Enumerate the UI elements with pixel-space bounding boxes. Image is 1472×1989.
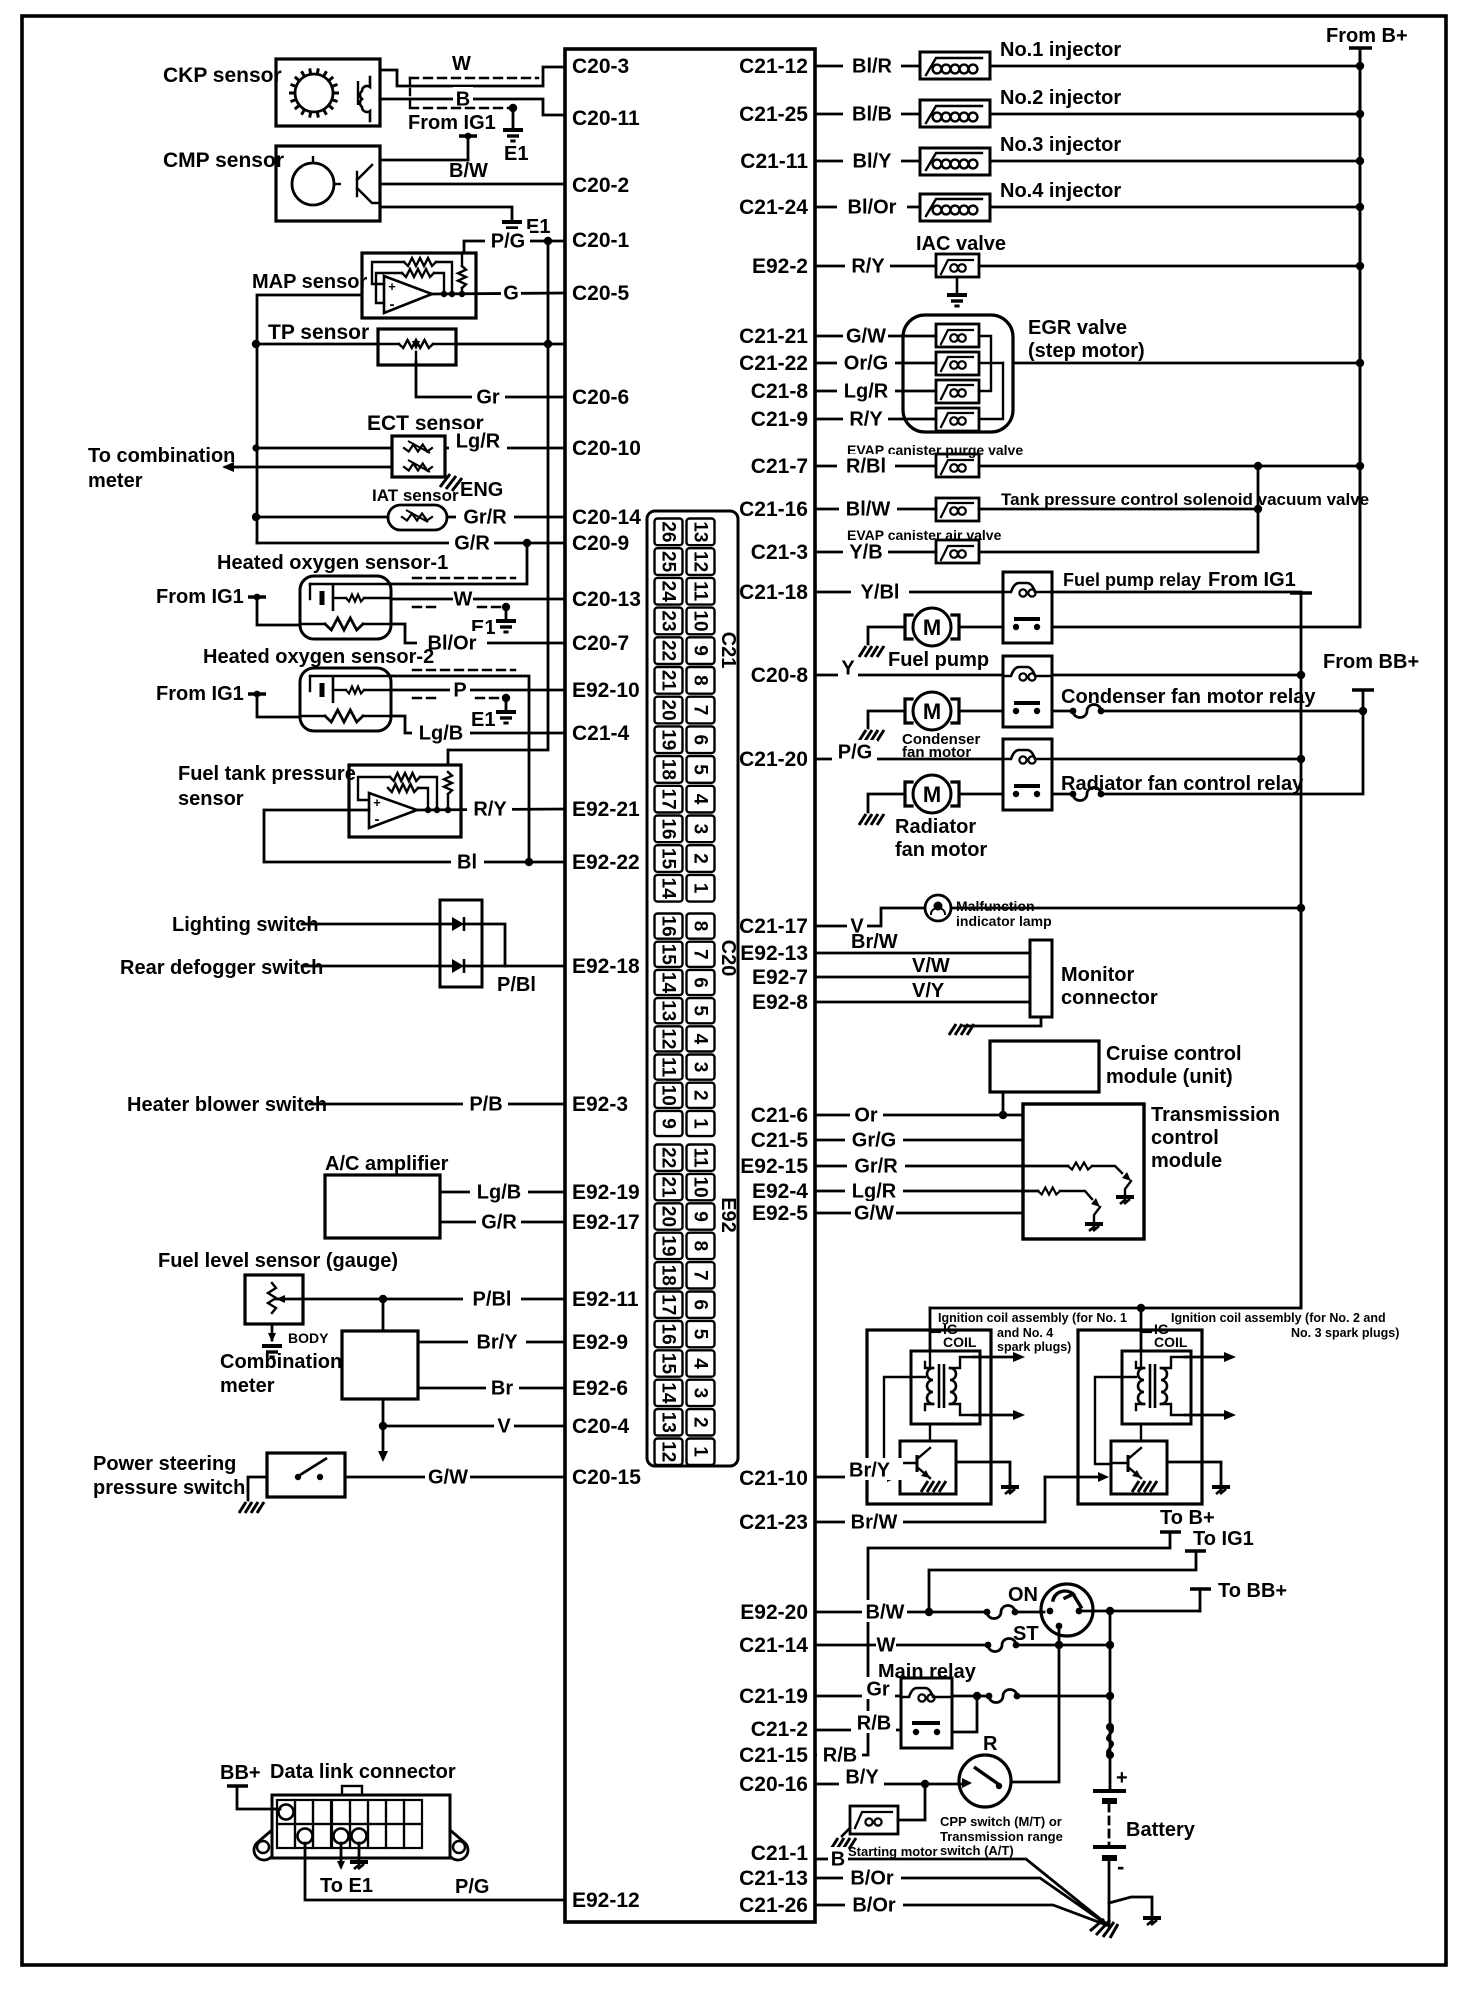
FTP op-amp: [369, 793, 417, 828]
arrowhead to combination meter: [222, 462, 234, 472]
svg-text:C21-20: C21-20: [739, 748, 808, 771]
junction TP on sensor bus: [252, 340, 260, 348]
TCM internal resistor 1: [1068, 1163, 1092, 1170]
wire base input: [1045, 1476, 1104, 1479]
svg-text:E92: E92: [717, 1197, 739, 1233]
svg-text:G/W: G/W: [428, 1466, 468, 1488]
svg-text:R/Bl: R/Bl: [846, 455, 886, 477]
junction ignition coil assembly 2 feed: [1137, 1304, 1145, 1312]
CPP switch circle: [959, 1755, 1011, 1807]
shield dashed below W wire left: [413, 606, 440, 608]
svg-text:pressure switch: pressure switch: [93, 1477, 245, 1499]
No.4 injector (coil): [920, 194, 990, 221]
wire Lg/R from C21-8 to EGR coil: [815, 390, 936, 393]
svg-text:connector: connector: [1061, 987, 1158, 1009]
ground E1 (HO2S-2 shield): [496, 712, 516, 723]
fuel pump relay: [1003, 572, 1052, 643]
wire radiator fan to BB+ bus end: [1101, 793, 1363, 796]
wire G from MAP op-amp to C20-5: [432, 293, 565, 294]
svg-text:2: 2: [690, 1417, 711, 1428]
svg-text:Fuel tank pressure: Fuel tank pressure: [178, 763, 356, 785]
shield ground junction: [509, 104, 517, 112]
svg-text:Br/Y: Br/Y: [849, 1459, 891, 1481]
wire Bl/R from C21-12 to No.1 injector: [815, 65, 920, 68]
svg-text:sensor: sensor: [178, 788, 244, 810]
junction V wire: [379, 1422, 387, 1430]
diode 2: [452, 959, 464, 973]
svg-text:20: 20: [658, 1206, 679, 1227]
svg-text:9: 9: [690, 1211, 711, 1222]
svg-text:18: 18: [658, 759, 679, 780]
svg-text:Bl/Or: Bl/Or: [428, 632, 477, 654]
ground (starting motor): [831, 1838, 856, 1849]
svg-text:4: 4: [690, 794, 711, 805]
TCM internal solenoid arrow 1: [1122, 1172, 1131, 1181]
svg-text:Gr: Gr: [476, 386, 500, 408]
fuse (B/W ignition feed): [984, 1609, 991, 1616]
svg-text:C20-14: C20-14: [572, 506, 641, 529]
svg-text:+: +: [373, 795, 381, 810]
junction IAT on sensor bus: [252, 513, 260, 521]
svg-text:12: 12: [658, 1441, 679, 1462]
IAT thermistor: [402, 514, 432, 521]
svg-text:19: 19: [658, 1235, 679, 1256]
igniter (power transistor): [900, 1441, 956, 1494]
wire R/Y from C21-9 to EGR coil: [815, 418, 936, 421]
FTP feedback resistor 2: [388, 784, 418, 792]
junction W to ST line: [1055, 1641, 1063, 1649]
svg-text:E92-11: E92-11: [572, 1288, 639, 1311]
wire W from HO2S-1 to C20-13: [391, 598, 565, 601]
svg-text:G/R: G/R: [481, 1211, 517, 1233]
svg-text:E92-19: E92-19: [572, 1181, 640, 1204]
svg-text:Cruise control: Cruise control: [1106, 1043, 1242, 1065]
EVAP canister air valve (coil): [936, 540, 979, 563]
svg-text:W: W: [452, 53, 471, 75]
switch contacts: [295, 1474, 301, 1480]
wire to starting motor solenoid: [898, 1784, 925, 1820]
svg-text:Heater blower switch: Heater blower switch: [127, 1094, 327, 1116]
svg-text:TP sensor: TP sensor: [268, 321, 369, 344]
wire Bl/B from C21-25 to No.2 injector: [815, 113, 920, 116]
junction No.1 injector on B+ bus: [1356, 62, 1364, 70]
wire P/B to E92-3: [310, 1103, 565, 1106]
wire IAC valve to ground: [956, 278, 959, 293]
wire B/Or from C21-26 to ground point: [815, 1905, 1109, 1926]
wire fuel pump to ground: [868, 627, 904, 644]
svg-text:15: 15: [658, 848, 679, 870]
svg-text:1: 1: [690, 1118, 711, 1129]
svg-text:C21-17: C21-17: [739, 915, 808, 938]
svg-text:6: 6: [690, 977, 711, 988]
connector E92 left column pins 22-12: [655, 1145, 683, 1465]
MAP feedback resistor 2: [402, 269, 434, 277]
wire P/G from C21-20 to radiator fan relay: [815, 758, 1003, 761]
svg-text:P/B: P/B: [469, 1093, 502, 1115]
CMP pickup: [357, 165, 380, 203]
svg-text:9: 9: [658, 1118, 679, 1129]
svg-text:2: 2: [690, 1090, 711, 1101]
starting motor solenoid: [850, 1806, 898, 1834]
junction HO2S-2 to Bl row: [525, 858, 533, 866]
wire Gr/R from IAT to C20-14: [447, 516, 565, 519]
svg-text:12: 12: [690, 551, 711, 572]
wire Lg/B to E92-19: [440, 1191, 565, 1194]
wire R/Y from E92-2 to IAC valve: [815, 265, 936, 268]
svg-text:V: V: [497, 1415, 511, 1437]
svg-text:C21-24: C21-24: [739, 196, 808, 219]
svg-text:Radiator fan control relay: Radiator fan control relay: [1061, 773, 1304, 795]
wire solenoid to ground: [842, 1828, 850, 1836]
ground E1 (HO2S-1 shield): [496, 621, 516, 632]
svg-text:8: 8: [690, 675, 711, 686]
svg-text:E92-22: E92-22: [572, 851, 640, 874]
svg-text:9: 9: [690, 645, 711, 656]
svg-text:No. 3 spark plugs): No. 3 spark plugs): [1291, 1326, 1399, 1340]
svg-text:CMP sensor: CMP sensor: [163, 149, 284, 172]
wire Lg/R from ECT to C20-10: [445, 447, 565, 450]
svg-text:E92-10: E92-10: [572, 679, 640, 702]
wire from lighting switch: [302, 923, 452, 926]
svg-text:C20-8: C20-8: [751, 664, 809, 687]
svg-text:E92-5: E92-5: [752, 1202, 808, 1225]
svg-text:G/W: G/W: [846, 325, 886, 347]
svg-text:Radiator: Radiator: [895, 816, 976, 838]
svg-text:Battery: Battery: [1126, 1819, 1196, 1841]
svg-text:M: M: [923, 615, 941, 640]
svg-text:E92-4: E92-4: [752, 1180, 808, 1203]
wire G/R from sensor bus to C20-9: [257, 542, 565, 545]
fusible link (radiator fan): [1070, 791, 1077, 798]
wire Y/B from C21-3 to EVAP air valve: [815, 551, 936, 554]
svg-text:6: 6: [690, 735, 711, 746]
ignition coil assembly 1 (No.1 and No.4): [867, 1330, 991, 1504]
svg-text:10: 10: [690, 610, 711, 631]
ground (condenser fan motor): [859, 730, 884, 741]
cruise control module box: [990, 1041, 1099, 1092]
wire From IG1 to HO2S-1 heater: [257, 597, 300, 625]
svg-text:E92-15: E92-15: [740, 1155, 808, 1178]
wire No.3 injector to B+ bus: [990, 160, 1360, 163]
wire MIL to IG1 bus: [951, 907, 1301, 910]
HO2S-2 heater resistor: [325, 710, 363, 722]
svg-text:No.4 injector: No.4 injector: [1000, 180, 1121, 202]
svg-text:IAT sensor: IAT sensor: [372, 486, 459, 505]
svg-text:E92-6: E92-6: [572, 1377, 628, 1400]
svg-text:17: 17: [658, 1294, 679, 1315]
svg-text:14: 14: [658, 972, 679, 994]
svg-text:-: -: [375, 811, 380, 828]
svg-text:C21-9: C21-9: [751, 408, 808, 431]
wire Br/Y to E92-9: [418, 1341, 565, 1344]
svg-text:C21-25: C21-25: [739, 103, 808, 126]
switch diode box: [440, 900, 482, 987]
svg-text:B/Or: B/Or: [850, 1867, 894, 1889]
HO2S-1 signal internal: [310, 583, 391, 585]
svg-text:To IG1: To IG1: [1193, 1528, 1254, 1550]
secondary output 2: [1185, 1414, 1230, 1417]
svg-text:3: 3: [690, 1062, 711, 1073]
wire combination meter down arrow: [382, 1426, 385, 1458]
shield dashed left end: [409, 78, 411, 108]
wire switch to ground: [248, 1477, 267, 1500]
CKP sensor box: [276, 59, 380, 126]
IAT sensor body: [388, 505, 447, 530]
svg-text:A/C amplifier: A/C amplifier: [325, 1153, 449, 1175]
svg-text:Br/W: Br/W: [851, 1511, 898, 1533]
ECU (engine control module) box: [565, 49, 815, 1922]
svg-text:Fuel pump: Fuel pump: [888, 649, 989, 671]
svg-text:Lg/B: Lg/B: [477, 1181, 521, 1203]
svg-text:+: +: [1116, 1767, 1128, 1789]
wire fuel pump relay contact to B+ bus: [1052, 626, 1360, 629]
MAP pull-up resistor: [458, 266, 466, 288]
shield dashed line above B wire: [410, 77, 538, 79]
svg-text:1: 1: [690, 1446, 711, 1457]
wire B from C21-1 to ground point: [815, 1859, 1109, 1926]
connector C21 left column pins 26-14: [655, 519, 683, 902]
MAP op-amp: [384, 276, 432, 313]
wire V to C20-4: [383, 1399, 565, 1426]
svg-text:G/R: G/R: [454, 532, 490, 554]
wire TP left to sensor bus: [256, 343, 378, 346]
shield dashed above P wire: [413, 669, 515, 671]
wire G/W from E92-5: [815, 1212, 1023, 1215]
svg-text:C20-1: C20-1: [572, 229, 630, 252]
svg-text:P/G: P/G: [491, 230, 525, 252]
svg-text:B/W: B/W: [449, 160, 488, 182]
wire Bl/Or from HO2S-1 heater to C20-7: [391, 624, 565, 643]
wire ignition switch to To BB+ / battery: [1079, 1610, 1200, 1613]
svg-text:Lg/B: Lg/B: [419, 722, 463, 744]
monitor connector box: [1030, 940, 1052, 1017]
wire diode outputs join: [464, 924, 505, 966]
power steering pressure switch box: [267, 1453, 345, 1497]
FTP pull-up resistor: [444, 772, 452, 794]
svg-text:10: 10: [690, 1177, 711, 1198]
FTP internal wiring: [358, 777, 390, 800]
svg-text:Gr: Gr: [866, 1678, 890, 1700]
svg-text:24: 24: [658, 581, 679, 603]
wire condenser relay coil to IG1 bus: [1052, 674, 1301, 677]
wire Y from C20-8 to condenser fan relay: [815, 674, 1003, 677]
ground (igniter internal): [1132, 1481, 1157, 1492]
connector E92 right column pins 11-1: [687, 1145, 715, 1465]
wire IG1 bus vertical: [1300, 593, 1303, 1308]
wire B/Or from C21-13 to ground point: [815, 1878, 1109, 1926]
svg-text:E92-3: E92-3: [572, 1093, 628, 1116]
svg-text:B/W: B/W: [866, 1601, 905, 1623]
svg-text:IAC valve: IAC valve: [916, 233, 1006, 255]
wire fuel level sensor to body ground: [271, 1324, 274, 1340]
wire HO2S-1 signal up to G/R row: [391, 543, 527, 584]
ground (fuel pump): [859, 646, 884, 657]
HO2S-1 body: [300, 576, 391, 639]
fusible link (condenser fan): [1070, 708, 1077, 715]
wire P from HO2S-2 to E92-10: [391, 689, 565, 692]
svg-text:C20-6: C20-6: [572, 386, 629, 409]
svg-text:21: 21: [658, 1177, 679, 1199]
wire main relay coil out: [952, 1695, 989, 1698]
ground E1 (CKP shield): [503, 130, 523, 141]
TP wiper arrow: [415, 352, 417, 362]
svg-text:11: 11: [658, 1057, 679, 1078]
HO2S-2 internal resistor: [346, 687, 364, 694]
wire battery negative to ground: [1108, 1861, 1111, 1926]
wire BB+ bus vertical: [1362, 690, 1365, 792]
svg-text:Bl/Or: Bl/Or: [848, 196, 897, 218]
svg-text:Y/B: Y/B: [849, 541, 882, 563]
svg-text:COIL: COIL: [943, 1334, 977, 1350]
svg-text:11: 11: [690, 581, 711, 602]
svg-text:G: G: [503, 282, 519, 304]
svg-text:From IG1: From IG1: [408, 112, 496, 134]
svg-text:Transmission: Transmission: [1151, 1104, 1280, 1126]
wire sensor supply bus down to fuel tank pressure sensor: [448, 241, 548, 765]
secondary output 1: [974, 1356, 1019, 1359]
wire Or from C21-6: [815, 1114, 1023, 1117]
shield dashed below W wire right: [478, 606, 502, 608]
fuse (main relay): [986, 1693, 993, 1700]
svg-text:To E1: To E1: [320, 1875, 373, 1897]
ENG ground hatch: [440, 474, 462, 491]
junction P/G to sensor supply bus: [544, 237, 552, 245]
svg-text:C20-3: C20-3: [572, 55, 629, 78]
TP potentiometer resistor: [399, 340, 433, 348]
EGR internal wiring: [979, 336, 991, 391]
igniter (power transistor): [1111, 1441, 1167, 1494]
svg-text:5: 5: [690, 764, 711, 775]
svg-text:C21-15: C21-15: [739, 1744, 808, 1767]
svg-text:11: 11: [690, 1148, 711, 1169]
wire radiator relay contact out: [1052, 793, 1073, 796]
wire IAT left to sensor bus: [256, 516, 388, 519]
svg-text:COIL: COIL: [1154, 1334, 1188, 1350]
svg-text:14: 14: [658, 878, 679, 900]
svg-text:17: 17: [658, 789, 679, 810]
svg-text:Heated oxygen sensor-1: Heated oxygen sensor-1: [217, 552, 448, 574]
wire Gr/R from E92-15: [815, 1165, 1068, 1168]
wire B from CKP to C20-11: [380, 99, 565, 115]
svg-text:C21-11: C21-11: [740, 150, 808, 173]
svg-text:14: 14: [658, 1382, 679, 1404]
wire condenser fan motor to ground: [868, 711, 904, 728]
No.3 injector (coil): [920, 148, 990, 175]
junction B/Y to starting motor: [921, 1780, 929, 1788]
svg-text:Monitor: Monitor: [1061, 964, 1135, 986]
data link connector body: [272, 1795, 450, 1858]
left mounting ear: [254, 1830, 272, 1860]
svg-text:E92-8: E92-8: [752, 991, 808, 1014]
ground (TCM internal 2): [1085, 1224, 1103, 1231]
svg-text:12: 12: [658, 1028, 679, 1049]
svg-text:C20-11: C20-11: [572, 107, 640, 130]
svg-text:C21-18: C21-18: [739, 581, 808, 604]
svg-text:22: 22: [658, 640, 679, 661]
svg-text:Y/Bl: Y/Bl: [861, 581, 900, 603]
svg-text:Br: Br: [491, 1377, 513, 1399]
svg-text:To combination: To combination: [88, 445, 235, 467]
svg-text:Starting motor: Starting motor: [848, 1844, 938, 1859]
ground BODY: [262, 1346, 282, 1357]
svg-text:Heated oxygen sensor-2: Heated oxygen sensor-2: [203, 646, 434, 668]
wire G/W to C20-15: [345, 1476, 565, 1479]
wire cruise control module to Or row: [1002, 1092, 1005, 1115]
svg-text:Bl/R: Bl/R: [852, 55, 893, 77]
wire Bl/Or from C21-24 to No.4 injector: [815, 206, 920, 209]
svg-text:Combination: Combination: [220, 1351, 342, 1373]
shield ground junction: [502, 694, 510, 702]
svg-text:W: W: [454, 588, 473, 610]
svg-text:(step motor): (step motor): [1028, 340, 1145, 362]
CMP rotor circle: [292, 163, 334, 205]
HO2S-2 cell battery: [309, 676, 311, 691]
svg-text:control: control: [1151, 1127, 1219, 1149]
svg-text:-: -: [390, 296, 395, 313]
svg-text:To B+: To B+: [1160, 1507, 1215, 1529]
svg-text:From IG1: From IG1: [156, 586, 244, 608]
svg-text:Fuel level sensor (gauge): Fuel level sensor (gauge): [158, 1250, 398, 1272]
svg-text:3: 3: [690, 1388, 711, 1399]
wire P/Bl to E92-18: [464, 965, 565, 968]
connector C20 right column pins 8-1: [687, 914, 715, 1137]
ECT thermistor upper: [404, 445, 432, 452]
wire Lg/B from HO2S-2 heater to C21-4: [391, 716, 565, 733]
wire R/Y from FTP to E92-21: [417, 809, 565, 810]
svg-text:C20-15: C20-15: [572, 1466, 641, 1489]
wire radiator fan motor to ground: [868, 794, 904, 812]
junction G/R to HO2S-1 signal: [523, 539, 531, 547]
svg-text:M: M: [923, 782, 941, 807]
svg-text:10: 10: [658, 1085, 679, 1106]
ground (chassis): [1143, 1918, 1161, 1925]
svg-text:and No. 4: and No. 4: [997, 1326, 1053, 1340]
svg-text:To BB+: To BB+: [1218, 1580, 1287, 1602]
junction TP supply on bus: [544, 340, 552, 348]
svg-text:P/Bl: P/Bl: [497, 974, 536, 996]
condenser fan motor relay: [1003, 656, 1052, 727]
shield dashed line below B wire: [410, 107, 513, 109]
svg-text:ENG: ENG: [460, 479, 503, 501]
svg-text:E92-7: E92-7: [752, 966, 808, 989]
svg-text:No.1 injector: No.1 injector: [1000, 39, 1121, 61]
wire Bl from FTP to E92-22: [264, 810, 565, 862]
wire ECT upper to sensor bus: [256, 447, 392, 450]
wire sensor left bus (MAP/TP/ECT/IAT): [257, 295, 362, 543]
svg-text:R/Y: R/Y: [849, 408, 883, 430]
svg-text:4: 4: [690, 1034, 711, 1045]
wire HO2S-2 signal down to E92-22 row: [391, 676, 529, 862]
wire No.4 injector to B+ bus: [990, 206, 1360, 209]
TP sensor box: [378, 329, 456, 365]
svg-text:C21-6: C21-6: [751, 1104, 808, 1127]
wire To B+ to C21-15 R/B: [815, 1532, 1170, 1755]
svg-text:switch (A/T): switch (A/T): [940, 1843, 1014, 1858]
svg-text:C21-12: C21-12: [739, 55, 808, 78]
svg-text:R/Y: R/Y: [851, 255, 885, 277]
ground (igniter internal): [921, 1481, 946, 1492]
svg-text:E92-13: E92-13: [740, 942, 808, 965]
junction B/W to IG1: [925, 1608, 933, 1616]
shield dashed below P wire left: [413, 697, 440, 699]
svg-text:16: 16: [658, 916, 679, 937]
secondary output 1: [1185, 1356, 1230, 1359]
svg-text:15: 15: [658, 1353, 679, 1375]
svg-text:5: 5: [690, 1005, 711, 1016]
svg-text:Data link connector: Data link connector: [270, 1761, 456, 1783]
junction battery feed: [1106, 1607, 1114, 1615]
svg-text:ON: ON: [1008, 1584, 1038, 1606]
